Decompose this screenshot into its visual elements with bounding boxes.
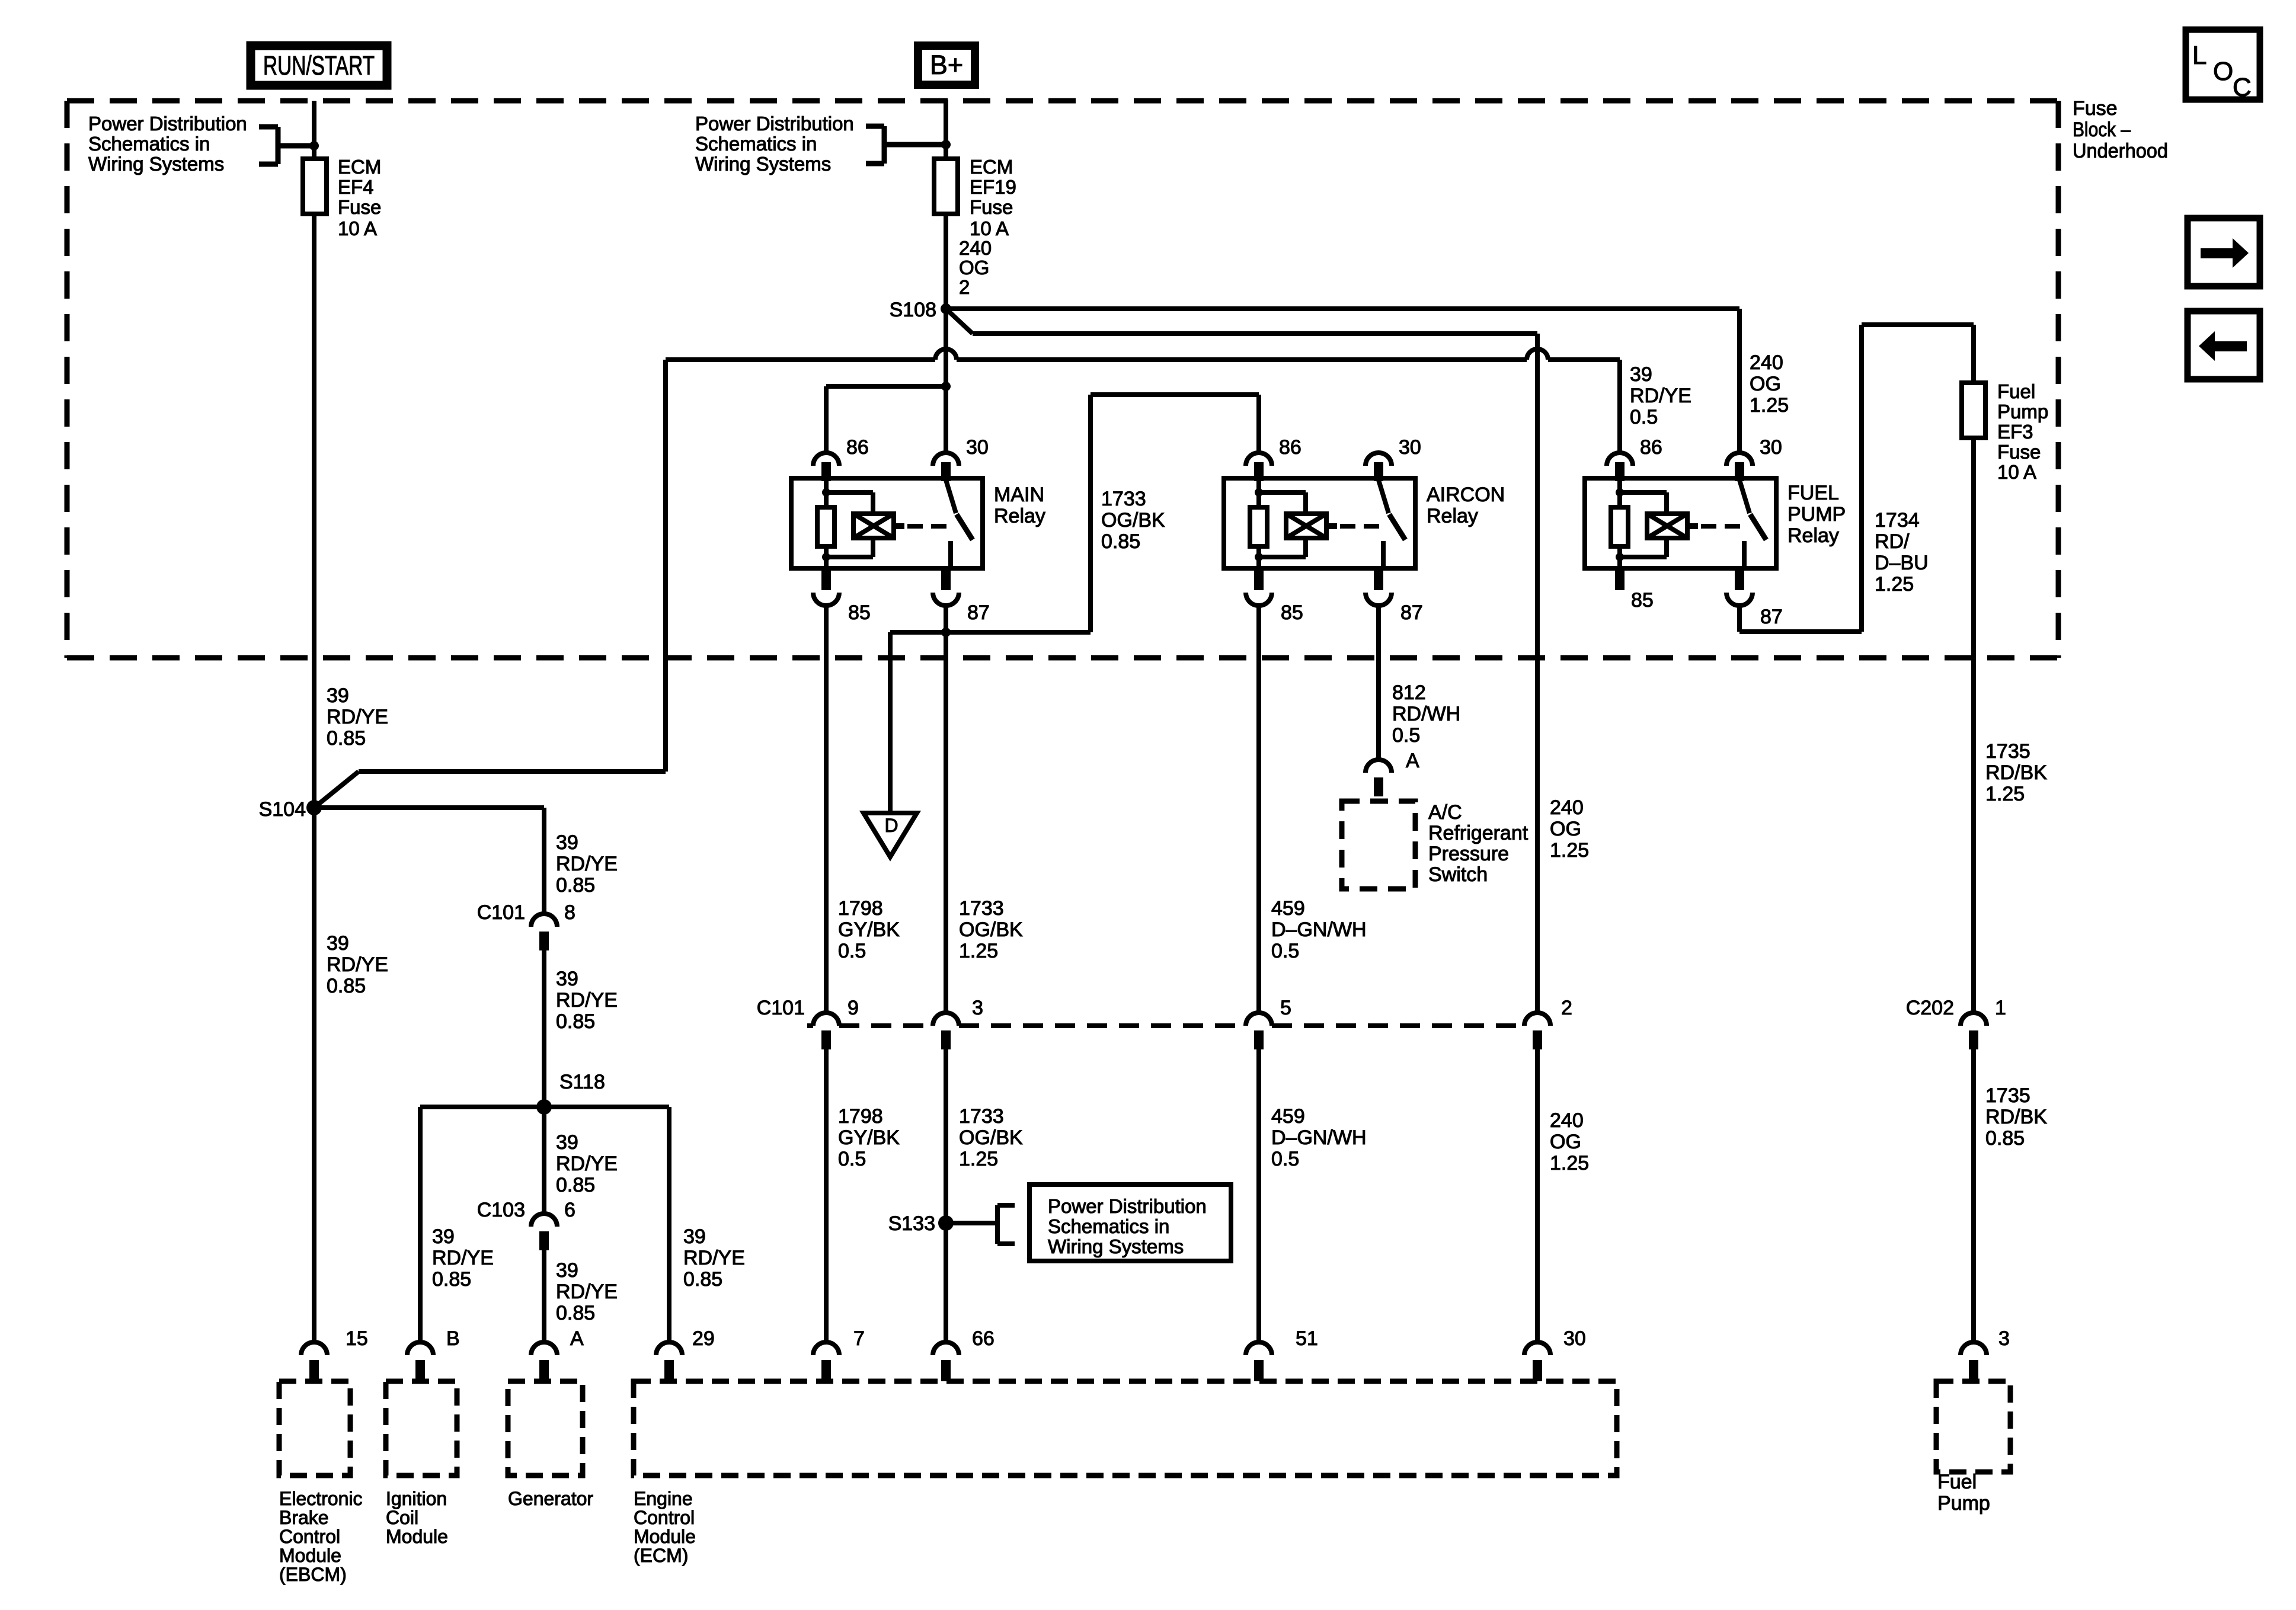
label 1733 OG/BK 0.85 (1101, 488, 1165, 553)
component Generator (dashed box) (508, 1381, 583, 1475)
connector ECM pin 66 (933, 1327, 994, 1381)
svg-text:7: 7 (853, 1327, 865, 1350)
bracket to Power Distribution note (left) (259, 127, 314, 164)
wire 87 branch to ground symbol D (890, 632, 946, 812)
svg-text:Power Distribution: Power Distribution (695, 113, 854, 135)
label Ignition Coil Module (386, 1488, 448, 1547)
junction dot main relay 86 tap (941, 382, 951, 391)
component Fuel Pump (dashed box) (1936, 1381, 2010, 1472)
junction dot at power distribution tap (left) (309, 141, 319, 151)
svg-text:ECM: ECM (338, 156, 381, 178)
svg-text:10 A: 10 A (970, 217, 1009, 239)
svg-text:0.5: 0.5 (1271, 940, 1299, 962)
svg-text:Fuse: Fuse (2073, 97, 2118, 120)
svg-text:RD/YE: RD/YE (432, 1247, 494, 1269)
svg-text:RD/YE: RD/YE (683, 1247, 745, 1269)
label 39 RD/YE 0.85 (B branch) (432, 1225, 494, 1291)
svg-text:GY/BK: GY/BK (838, 1126, 900, 1149)
svg-text:PUMP: PUMP (1787, 503, 1846, 526)
pin 86 label (AIRCON) (1279, 436, 1302, 459)
svg-text:RD/BK: RD/BK (1985, 761, 2047, 784)
label 459 D-GN/WH 0.5 (above C101) (1271, 897, 1367, 962)
connector ECM pin 51 (1246, 1327, 1318, 1381)
svg-text:AIRCON: AIRCON (1427, 484, 1505, 506)
svg-text:39: 39 (1630, 363, 1652, 386)
fuse EF19 (ECM 10A) (934, 159, 958, 214)
pin 86 label (FUEL PUMP) (1640, 436, 1662, 459)
svg-text:66: 66 (972, 1327, 994, 1350)
svg-text:RD/WH: RD/WH (1392, 703, 1460, 725)
pin 30 label (FUEL PUMP) (1760, 436, 1782, 459)
label Power Distribution Schematics in Wiring Systems (left) (88, 113, 247, 175)
svg-text:39: 39 (327, 932, 349, 955)
svg-text:Fuel: Fuel (1937, 1471, 1977, 1493)
svg-text:9: 9 (848, 997, 859, 1019)
svg-text:1.25: 1.25 (1985, 783, 2025, 805)
svg-text:240: 240 (959, 237, 992, 259)
node RUN/START (ignition voltage tag) (251, 46, 387, 85)
wire to main relay 86 (826, 386, 946, 453)
svg-text:S104: S104 (259, 798, 306, 821)
svg-text:39: 39 (556, 1131, 578, 1154)
svg-text:86: 86 (846, 436, 869, 459)
splice S133 (888, 1212, 954, 1235)
svg-text:OG: OG (1550, 1131, 1581, 1153)
wire C101 pin 5 to ECM pin 51 (1256, 1049, 1261, 1342)
svg-text:EF19: EF19 (970, 176, 1016, 198)
label 1733 OG/BK 1.25 (below C101) (959, 1105, 1023, 1170)
svg-text:Pump: Pump (1997, 401, 2048, 422)
svg-text:1733: 1733 (1101, 488, 1146, 510)
svg-text:S108: S108 (890, 299, 936, 321)
svg-text:30: 30 (1563, 1327, 1586, 1350)
wire EF3 fuse to C202 pin 1 (1971, 438, 1976, 1013)
component Engine Control Module (dashed box) (634, 1381, 1617, 1475)
wire aircon relay 87 to pressure switch (1376, 606, 1381, 760)
svg-text:85: 85 (1631, 589, 1654, 612)
svg-text:B+: B+ (930, 50, 963, 80)
svg-text:0.85: 0.85 (1985, 1127, 2025, 1150)
svg-text:3: 3 (972, 997, 983, 1019)
arrow next-page box (2188, 218, 2260, 286)
svg-text:ECM: ECM (970, 156, 1013, 178)
svg-text:1798: 1798 (838, 897, 883, 920)
splice S118 (536, 1071, 605, 1115)
svg-text:RD/YE: RD/YE (556, 1281, 618, 1303)
label 39 RD/YE 0.85 (to EBCM) (327, 932, 388, 997)
svg-text:RD/YE: RD/YE (556, 1153, 618, 1175)
svg-text:1735: 1735 (1985, 1084, 2030, 1107)
svg-text:OG: OG (959, 257, 989, 279)
wire C101 pin 9 to ECM pin 7 (824, 1049, 829, 1342)
relay AIRCON (coil, resistor, switch) (1224, 453, 1415, 590)
svg-text:240: 240 (1750, 351, 1783, 374)
svg-text:Power Distribution: Power Distribution (1048, 1195, 1207, 1217)
svg-text:39: 39 (432, 1225, 455, 1248)
label MAIN Relay (994, 484, 1045, 527)
label 1735 RD/BK 0.85 (1985, 1084, 2047, 1150)
svg-text:0.85: 0.85 (556, 874, 595, 897)
label 39 RD/YE 0.85 (A branch) (556, 1259, 618, 1324)
svg-text:Engine: Engine (634, 1488, 693, 1509)
pin 30 label (MAIN) (966, 436, 989, 459)
svg-text:5: 5 (1280, 997, 1291, 1019)
svg-text:A: A (570, 1327, 584, 1350)
fuse block underhood dashed border (left) (65, 101, 70, 658)
pin 85 connector (MAIN) (813, 593, 871, 624)
label 240 OG 1.25 (fuel pump relay 30 wire) (1750, 351, 1789, 417)
label 1798 GY/BK 0.5 (below C101) (838, 1105, 900, 1170)
svg-text:Generator: Generator (508, 1488, 593, 1509)
svg-text:1735: 1735 (1985, 740, 2030, 763)
connector generator pin A (531, 1327, 584, 1381)
svg-text:OG/BK: OG/BK (959, 1126, 1023, 1149)
svg-text:Module: Module (386, 1526, 448, 1547)
label 39 RD/YE 0.85 (S118 to C103) (556, 1131, 618, 1196)
svg-text:51: 51 (1296, 1327, 1318, 1350)
svg-text:Module: Module (279, 1545, 341, 1566)
svg-text:Control: Control (279, 1526, 340, 1547)
wire fuel pump relay 87 to EF3 fuse (1739, 325, 1974, 632)
wire RUN/START down to EF4 fuse (312, 101, 316, 159)
svg-text:10 A: 10 A (1997, 461, 2036, 483)
label Power Distribution Schematics in Wiring Systems (B+) (695, 113, 854, 175)
note box Power Distribution Schematics in Wiring Systems (S133) (1029, 1185, 1231, 1261)
svg-text:D: D (884, 815, 898, 836)
svg-text:RUN/START: RUN/START (263, 50, 375, 81)
svg-text:RD/YE: RD/YE (556, 853, 618, 875)
wire S108 down to main relay 30 (944, 309, 948, 453)
svg-text:0.85: 0.85 (556, 1010, 595, 1033)
svg-text:86: 86 (1279, 436, 1302, 459)
label FUEL PUMP Relay (1787, 482, 1846, 547)
bracket S133 to Power Distribution note (946, 1205, 1015, 1244)
label Fuse Block - Underhood (2073, 97, 2168, 162)
label 812 RD/WH 0.5 (1392, 681, 1460, 747)
svg-text:1.25: 1.25 (959, 1148, 998, 1170)
pin 85 label (FUEL PUMP) (1631, 589, 1654, 612)
svg-text:Fuse: Fuse (1997, 441, 2041, 463)
svg-text:39: 39 (556, 1259, 578, 1282)
svg-text:Schematics in: Schematics in (88, 133, 210, 155)
svg-text:OG: OG (1750, 373, 1781, 395)
svg-text:Fuel: Fuel (1997, 380, 2035, 402)
svg-text:6: 6 (564, 1199, 575, 1221)
wire S118 left branch to ignition coil module pin B (420, 1107, 544, 1342)
svg-text:Ignition: Ignition (386, 1488, 447, 1509)
wire C101 pin 2 to ECM pin 30 (1535, 1049, 1540, 1342)
svg-text:Wiring Systems: Wiring Systems (695, 153, 831, 175)
label ECM EF4 Fuse 10 A (338, 156, 381, 239)
svg-text:0.85: 0.85 (432, 1268, 471, 1291)
svg-text:Schematics in: Schematics in (695, 133, 817, 155)
svg-text:0.5: 0.5 (1392, 724, 1420, 747)
svg-text:Relay: Relay (994, 505, 1045, 527)
svg-text:Wiring Systems: Wiring Systems (1048, 1235, 1184, 1257)
svg-text:459: 459 (1271, 1105, 1305, 1128)
svg-text:1: 1 (1995, 997, 2006, 1019)
wire 39 RD/YE horizontal feed to fuel pump relay 86 (with hops) (666, 349, 1620, 453)
svg-text:1733: 1733 (959, 897, 1004, 920)
connector C101 row dashed line (757, 997, 1524, 1026)
svg-text:Module: Module (634, 1526, 696, 1547)
node D triangle (distribution symbol) (864, 813, 917, 857)
svg-text:85: 85 (848, 601, 871, 624)
splice S104 (259, 798, 322, 821)
svg-text:GY/BK: GY/BK (838, 918, 900, 941)
svg-text:RD/BK: RD/BK (1985, 1106, 2047, 1128)
component A/C Refrigerant Pressure Switch (dashed box) (1342, 801, 1415, 889)
svg-text:29: 29 (692, 1327, 715, 1350)
wire main relay 87 down (944, 606, 948, 1013)
wire C101 pin 3 to ECM pin 66 (944, 1049, 948, 1342)
svg-text:D–GN/WH: D–GN/WH (1271, 1126, 1367, 1149)
label Engine Control Module (ECM) (634, 1488, 696, 1566)
svg-text:A/C: A/C (1428, 801, 1462, 824)
svg-text:RD/YE: RD/YE (1630, 385, 1691, 407)
label 1734 RD/ D-BU 1.25 (1875, 509, 1929, 596)
svg-text:Refrigerant: Refrigerant (1428, 822, 1528, 844)
wire S118 to C103 pin 6 (542, 1107, 546, 1214)
svg-text:0.85: 0.85 (327, 727, 366, 750)
svg-text:EF4: EF4 (338, 176, 374, 198)
svg-text:459: 459 (1271, 897, 1305, 920)
svg-text:240: 240 (1550, 1109, 1584, 1132)
svg-text:Relay: Relay (1427, 505, 1478, 527)
svg-text:15: 15 (346, 1327, 368, 1350)
pin 87 connector (AIRCON) (1366, 593, 1423, 624)
node B+ (battery voltage tag) (918, 46, 975, 85)
svg-text:39: 39 (327, 684, 349, 707)
svg-text:240: 240 (1550, 796, 1584, 819)
wire S108 diagonal to 240 OG branch (946, 309, 1537, 1013)
svg-text:RD/YE: RD/YE (556, 989, 618, 1012)
label 459 D-GN/WH 0.5 (below C101) (1271, 1105, 1367, 1170)
label 39 RD/YE 0.85 (below fuse block left) (327, 684, 388, 750)
svg-text:87: 87 (1400, 601, 1423, 624)
svg-text:Block –: Block – (2073, 119, 2131, 141)
wire C103 pin 6 to generator pin A (542, 1250, 546, 1342)
svg-text:86: 86 (1640, 436, 1662, 459)
label 39 RD/YE 0.85 (to C101 pin 8) (556, 831, 618, 897)
svg-text:C103: C103 (477, 1199, 525, 1221)
wire main relay 85 to C101 pin 9 (824, 606, 829, 1013)
relay MAIN (coil, resistor, switch) (791, 453, 983, 590)
pin 85 connector (AIRCON) (1246, 593, 1303, 624)
svg-text:(ECM): (ECM) (634, 1545, 688, 1566)
junction dot at power distribution tap (B+) (941, 140, 951, 149)
wire B+ down to EF19 fuse (944, 100, 948, 159)
svg-text:30: 30 (966, 436, 989, 459)
wire S118 right branch to ECM pin 29 (544, 1107, 669, 1342)
connector C101 pin 3 (933, 997, 983, 1049)
svg-text:0.85: 0.85 (556, 1302, 595, 1324)
svg-text:30: 30 (1399, 436, 1421, 459)
svg-text:1733: 1733 (959, 1105, 1004, 1128)
label 240 OG 1.25 (below C101 pin 2) (1550, 1109, 1589, 1174)
junction dot main relay 87 (941, 628, 951, 637)
wire S108 to fuel pump relay 30 (946, 309, 1739, 453)
relay FUEL PUMP (coil, resistor, switch) (1585, 453, 1776, 590)
label 39 RD/YE 0.5 (fuel pump relay 86 wire) (1630, 363, 1691, 428)
svg-text:C202: C202 (1906, 997, 1954, 1019)
connector C101 pin 5 (1246, 997, 1291, 1049)
component Ignition Coil Module (dashed box) (386, 1381, 457, 1475)
wire S104 to C101 pin 8 (314, 808, 544, 914)
svg-text:0.85: 0.85 (1101, 530, 1140, 553)
label 39 RD/YE 0.85 (C101-8 to S118) (556, 968, 618, 1033)
svg-text:0.5: 0.5 (1271, 1148, 1299, 1170)
LOC legend box (2186, 30, 2260, 102)
connector C101 pin 9 (813, 997, 859, 1049)
connector C103 pin 6 (477, 1199, 575, 1250)
wire aircon relay 85 to C101 pin 5 (1256, 606, 1261, 1013)
svg-text:Electronic: Electronic (279, 1488, 363, 1509)
svg-text:RD/: RD/ (1875, 530, 1910, 553)
svg-text:Power Distribution: Power Distribution (88, 113, 247, 135)
label Fuel Pump (1937, 1471, 1990, 1515)
svg-text:0.85: 0.85 (327, 975, 366, 997)
svg-text:1.25: 1.25 (1550, 1152, 1589, 1174)
connector ECM pin 30 (1524, 1327, 1586, 1381)
svg-text:0.5: 0.5 (838, 1148, 866, 1170)
wire 1733 OG/BK branch to aircon relay 86 (946, 395, 1259, 632)
svg-text:FUEL: FUEL (1787, 482, 1839, 504)
label 1735 RD/BK 1.25 (1985, 740, 2047, 805)
wire 240 OG from EF19 to S108 (944, 214, 948, 309)
connector C202 pin 1 (1906, 997, 2006, 1049)
label AIRCON Relay (1427, 484, 1505, 527)
svg-text:2: 2 (1561, 997, 1572, 1019)
svg-text:C101: C101 (757, 997, 805, 1019)
component Electronic Brake Control Module (dashed box) (279, 1381, 350, 1475)
svg-text:2: 2 (959, 276, 970, 298)
svg-text:Underhood: Underhood (2073, 140, 2168, 162)
svg-text:OG/BK: OG/BK (959, 918, 1023, 941)
label A/C Refrigerant Pressure Switch (1428, 801, 1528, 886)
svg-text:Coil: Coil (386, 1507, 418, 1528)
fuse block underhood dashed border (top) (67, 98, 2058, 104)
svg-text:0.5: 0.5 (1630, 406, 1658, 428)
connector ignition coil pin B (407, 1327, 460, 1381)
svg-text:O: O (2213, 57, 2233, 86)
svg-text:0.85: 0.85 (556, 1174, 595, 1196)
svg-text:10 A: 10 A (338, 217, 377, 239)
splice S108 (890, 299, 951, 321)
svg-text:1.25: 1.25 (1550, 839, 1589, 862)
fuse EF3 (Fuel Pump 10A) (1962, 383, 1985, 438)
svg-text:C101: C101 (477, 901, 525, 924)
label 39 RD/YE 0.85 (29 branch) (683, 1225, 745, 1291)
pin 86 label (MAIN) (846, 436, 869, 459)
svg-text:Wiring Systems: Wiring Systems (88, 153, 224, 175)
svg-text:Fuse: Fuse (970, 196, 1013, 218)
wire S104 riser to 39 RD/YE feed line (314, 360, 666, 808)
wire S104 down to EBCM pin 15 (312, 808, 316, 1342)
connector fuel pump pin 3 (1961, 1327, 2010, 1381)
svg-text:C: C (2233, 73, 2252, 102)
svg-text:L: L (2192, 41, 2207, 70)
fuse EF4 (ECM 10A) (303, 159, 327, 214)
svg-text:OG/BK: OG/BK (1101, 509, 1165, 532)
connector C101 pin 2 (1524, 997, 1572, 1049)
label 1733 OG/BK 1.25 (above C101) (959, 897, 1023, 962)
label Electronic Brake Control Module (EBCM) (279, 1488, 363, 1585)
svg-text:MAIN: MAIN (994, 484, 1044, 506)
connector ECM pin 29 (656, 1327, 715, 1381)
svg-text:0.5: 0.5 (838, 940, 866, 962)
svg-text:D–GN/WH: D–GN/WH (1271, 918, 1367, 941)
connector C101 pin 8 (477, 901, 575, 950)
connector ECM pin 7 (813, 1327, 865, 1381)
fuse block underhood dashed border (right) (2056, 101, 2061, 658)
wire C202 pin 1 to fuel pump pin 3 (1971, 1049, 1976, 1342)
label Fuel Pump EF3 Fuse 10 A (1997, 380, 2048, 483)
svg-text:RD/YE: RD/YE (327, 706, 388, 728)
svg-text:85: 85 (1281, 601, 1303, 624)
svg-text:RD/YE: RD/YE (327, 953, 388, 976)
svg-text:D–BU: D–BU (1875, 552, 1929, 574)
svg-text:87: 87 (967, 601, 990, 624)
pin 87 connector (MAIN) (933, 593, 990, 624)
svg-text:(EBCM): (EBCM) (279, 1564, 347, 1585)
svg-text:39: 39 (683, 1225, 706, 1248)
svg-text:1.25: 1.25 (959, 940, 998, 962)
svg-text:Pump: Pump (1937, 1492, 1990, 1515)
svg-text:39: 39 (556, 968, 578, 990)
svg-text:1798: 1798 (838, 1105, 883, 1128)
svg-text:1.25: 1.25 (1875, 573, 1914, 596)
svg-text:S133: S133 (888, 1212, 935, 1235)
svg-text:B: B (446, 1327, 460, 1350)
svg-text:0.85: 0.85 (683, 1268, 722, 1291)
svg-text:Fuse: Fuse (338, 196, 381, 218)
svg-text:Schematics in: Schematics in (1048, 1215, 1169, 1237)
pin 30 label (AIRCON) (1399, 436, 1421, 459)
svg-text:Control: Control (634, 1507, 695, 1528)
svg-text:87: 87 (1760, 606, 1783, 628)
svg-text:1.25: 1.25 (1750, 394, 1789, 417)
svg-text:OG: OG (1550, 818, 1581, 840)
bracket to Power Distribution note (B+) (866, 126, 946, 164)
svg-text:30: 30 (1760, 436, 1782, 459)
connector EBCM pin 15 (301, 1327, 368, 1381)
svg-text:1734: 1734 (1875, 509, 1920, 532)
svg-text:S118: S118 (559, 1071, 605, 1093)
connector pin A (pressure switch) (1366, 750, 1419, 796)
wire C101 pin 8 to S118 (542, 950, 546, 1107)
svg-text:8: 8 (564, 901, 575, 924)
svg-text:A: A (1406, 750, 1419, 772)
svg-text:Pressure: Pressure (1428, 843, 1509, 865)
svg-text:Relay: Relay (1787, 524, 1839, 547)
label 240 OG 2 (959, 237, 992, 298)
arrow prev-page box (2188, 311, 2260, 379)
svg-text:Brake: Brake (279, 1507, 329, 1528)
label ECM EF19 Fuse 10 A (970, 156, 1016, 239)
svg-text:EF3: EF3 (1997, 421, 2033, 443)
fuse block underhood dashed border (bottom) (67, 655, 2058, 661)
svg-text:Switch: Switch (1428, 863, 1488, 886)
label 240 OG 1.25 (above C101 pin 2) (1550, 796, 1589, 862)
svg-text:39: 39 (556, 831, 578, 854)
svg-text:812: 812 (1392, 681, 1426, 704)
wire 39 RD/YE from EF4 fuse to S104 (312, 214, 316, 808)
pin 87 connector (FUEL PUMP) (1726, 593, 1783, 628)
label 1798 GY/BK 0.5 (above C101) (838, 897, 900, 962)
svg-text:3: 3 (1998, 1327, 2010, 1350)
label Generator (508, 1488, 593, 1509)
